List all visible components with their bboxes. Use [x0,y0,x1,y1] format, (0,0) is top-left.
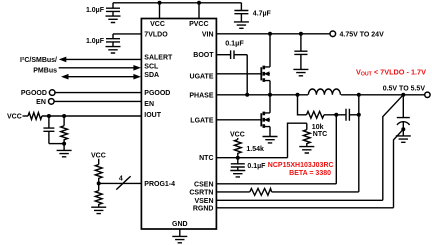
wire SDA arrow line [65,76,136,78]
pin GND label [172,221,188,228]
wire RGND [216,207,393,209]
svg-text:NCP15XH103J03RC: NCP15XH103J03RC [268,162,334,169]
ground PROG divider [91,207,106,213]
wire output rail [341,94,425,96]
wire RGND diagonal tap [394,129,404,208]
pin PROG1-4 label [144,181,175,188]
label VOUT red limit [356,68,426,78]
resistor R5 DCR sense [307,111,325,118]
node phase FET junction [268,93,272,97]
label C10 0.1uF [247,163,266,170]
wire VCC pin riser [159,3,161,19]
label I2C/SMBus/ [20,57,57,64]
wire Q1 drain to VIN [269,34,271,67]
node output cap junction [401,93,405,97]
arrowhead SALERT left [59,57,67,63]
wire IOUT filter bottom [49,143,64,145]
ground C6 [293,69,308,75]
svg-text:VSEN: VSEN [194,198,213,205]
resistor R2 IOUT shunt [61,116,68,144]
svg-text:BETA = 3380: BETA = 3380 [289,170,331,177]
wire PVCC pin riser [198,3,200,19]
svg-text:NTC: NTC [313,131,327,138]
wire CSRTN right segment [272,191,359,193]
wire Q1 source to phase [269,81,271,95]
label VCC PROG divider [91,152,106,159]
node phase sense junction [296,93,300,97]
arrowhead SCL right [133,65,141,71]
wire NTC riser [288,123,307,158]
wire NTC pin [216,157,287,159]
svg-text:0.1µF: 0.1µF [225,38,244,47]
arrowhead SDA right [133,74,141,80]
node PROG divider junction [97,181,101,185]
label C7 0.1uF [225,38,244,47]
wire VSEN [216,199,382,201]
svg-text:VCC: VCC [150,21,165,28]
terminal VIN circle [330,31,336,37]
label C1 1.0uF [86,7,105,14]
pin PHASE label [189,92,213,99]
label RT1 NTC [313,131,327,138]
resistor R4 PROG lower [95,183,102,207]
ground C2 [106,47,121,53]
pin LGATE label [190,118,214,125]
pin 7VLDO label [144,31,168,38]
svg-text:VIN: VIN [202,31,214,38]
wire UGATE [216,73,260,75]
wire CSRTN left segment [216,191,249,193]
svg-text:4.7µF: 4.7µF [253,10,272,17]
svg-text:GND: GND [172,221,188,228]
label PMBus [33,67,57,74]
wire 7VLDO to C2 [113,33,141,35]
wire BOOT to C7 [216,54,230,56]
wire Q2 source to ground [269,127,271,137]
label bus width 4 [119,175,123,182]
pin SALERT label [144,55,173,62]
label R7 1.54k [246,146,264,153]
thermistor RT1 10k NTC [303,123,310,146]
svg-text:VCC: VCC [7,114,22,121]
svg-text:UGATE: UGATE [190,73,214,80]
ground Q2 source [263,137,278,143]
terminal EN circle [49,99,55,105]
inductor L1 [308,89,340,95]
label RT1 10k [312,124,324,131]
wire VCC to R1 [23,115,29,117]
capacitor C10 NTC filter 0.1uF [231,158,245,171]
svg-text:1.0µF: 1.0µF [86,7,105,14]
capacitor C3 4.7uF PVCC decoupling [234,3,248,22]
svg-text:I²C/SMBus/: I²C/SMBus/ [20,57,57,64]
svg-text:BOOT: BOOT [193,52,214,59]
pin NTC label [199,155,213,162]
svg-text:PROG1-4: PROG1-4 [144,181,175,188]
svg-text:0.5V TO 5.5V: 0.5V TO 5.5V [383,85,426,92]
pin SDA label [144,72,159,79]
ground C10 [230,171,245,177]
wire PROG to pin [99,182,142,184]
svg-text:1.0µF: 1.0µF [86,38,105,45]
node IOUT filter res junction [62,114,66,118]
capacitor C4 IOUT filter [43,116,54,144]
pin SCL label [144,64,159,71]
capacitor C6 input bulk [294,34,307,70]
capacitor C1 1.0uF VCC decoupling [106,3,120,16]
svg-text:CSRTN: CSRTN [189,189,213,196]
ground C1 [106,16,121,22]
pin RGND label [193,205,214,212]
svg-text:IOUT: IOUT [144,112,161,119]
ground RT1 [299,147,314,153]
svg-text:RGND: RGND [193,205,214,212]
node IOUT filter cap junction [47,114,51,118]
svg-text:PGOOD: PGOOD [144,90,170,97]
terminal PGOOD circle [49,90,55,96]
svg-text:EN: EN [36,99,46,106]
pin VSEN label [194,198,213,205]
svg-text:CSEN: CSEN [194,181,213,188]
svg-text:VCC: VCC [230,131,245,138]
svg-text:VCC: VCC [91,152,106,159]
wire IOUT ground stem [63,144,65,151]
wire SCL arrow line [59,67,136,69]
transistor Q1 high-side NFET [261,66,270,82]
svg-text:PVCC: PVCC [189,21,208,28]
wire top VCC rail [113,2,241,4]
resistor R1 IOUT series [28,113,42,120]
wire PGOOD [55,92,141,94]
wire boot riser to phase [246,55,248,95]
label VCC IOUT filter [7,114,22,121]
svg-text:10k: 10k [312,124,324,131]
label thermistor beta red [289,170,331,177]
node NTC RC junction [236,156,240,160]
pin PVCC label [189,21,208,28]
node VIN drain junction [268,32,272,36]
wire CSRTN riser [358,95,360,192]
wire Q2 drain to phase [269,95,271,113]
node CSEN tap junction [334,113,338,117]
pin UGATE label [190,73,214,80]
svg-text:PGOOD: PGOOD [21,90,47,97]
bus slash PROG1-4 [116,176,130,189]
capacitor C2 1.0uF 7VLDO decoupling [106,34,120,47]
pin BOOT label [193,52,214,59]
svg-text:1.54k: 1.54k [246,146,264,153]
wire VSEN diagonal tap [383,95,404,201]
node VCC top rail junction [158,1,162,5]
label VIN 4.75V TO 24V [340,31,385,38]
pin CSEN label [194,181,213,188]
terminal VOUT circle [425,92,430,97]
node output riser sense junction [357,113,361,117]
svg-text:LGATE: LGATE [190,118,214,125]
svg-text:4.75V TO 24V: 4.75V TO 24V [340,31,385,38]
svg-text:7VLDO: 7VLDO [144,31,168,38]
pin VIN label [202,31,214,38]
wire CSEN [216,183,336,185]
svg-text:SDA: SDA [144,72,159,79]
svg-text:SALERT: SALERT [144,55,173,62]
node phase boot junction [245,93,249,97]
svg-text:SCL: SCL [144,64,159,71]
arrowhead SDA left [61,74,69,80]
node PVCC top rail junction [197,1,201,5]
svg-text:VOUT < 7VLDO - 1.7V: VOUT < 7VLDO - 1.7V [356,68,426,78]
wire EN [54,100,141,102]
ground C3 [234,22,249,28]
wire LGATE [216,119,260,121]
resistor R3 PROG upper [95,159,102,184]
wire phase sense riser [298,95,307,115]
wire GND pin stem [179,229,181,236]
node VIN input cap junction [299,32,303,36]
wire CSEN riser [335,115,337,184]
node IOUT filter bottom junction [62,142,66,146]
svg-text:EN: EN [144,101,154,108]
label thermistor part number red [268,162,334,169]
label EN terminal [36,99,46,106]
svg-text:PHASE: PHASE [189,92,213,99]
node output CSRTN junction [357,93,361,97]
node output cap ground junction [401,127,405,131]
resistor R7 1.54k [234,138,241,158]
pin CSRTN label [189,189,213,196]
ground GND pin [172,236,187,242]
capacitor C8 sense [346,109,349,121]
wire VIN rail [216,33,330,35]
wire R5 to C8 [324,114,346,116]
wire PHASE rail [216,94,308,96]
wire C8 to output riser [349,114,358,116]
resistor R6 CSRTN [250,189,272,196]
svg-text:NTC: NTC [199,155,213,162]
label VOUT range 0.5V TO 5.5V [383,85,426,92]
wire C7 to phase riser [234,54,247,56]
label C2 1.0uF [86,38,105,45]
label C3 4.7uF [253,10,272,17]
ground C9 [396,136,411,142]
pin VCC label [150,21,165,28]
label PGOOD terminal [21,90,47,97]
ground IOUT filter [57,150,72,156]
svg-text:0.1µF: 0.1µF [247,163,266,170]
svg-text:4: 4 [119,175,123,182]
wire SALERT arrow line [63,58,141,60]
transistor Q2 low-side NFET [261,112,270,128]
pin IOUT label [144,112,161,119]
capacitor C9 output bulk [397,95,410,136]
capacitor C7 bootstrap 0.1uF [231,50,234,59]
svg-text:PMBus: PMBus [33,67,57,74]
wire R1 to IOUT pin [42,115,141,117]
label VCC NTC bias [230,131,245,138]
pin EN label [144,101,154,108]
op-amp U1 controller IC body [141,19,216,230]
pin PGOOD label [144,90,170,97]
